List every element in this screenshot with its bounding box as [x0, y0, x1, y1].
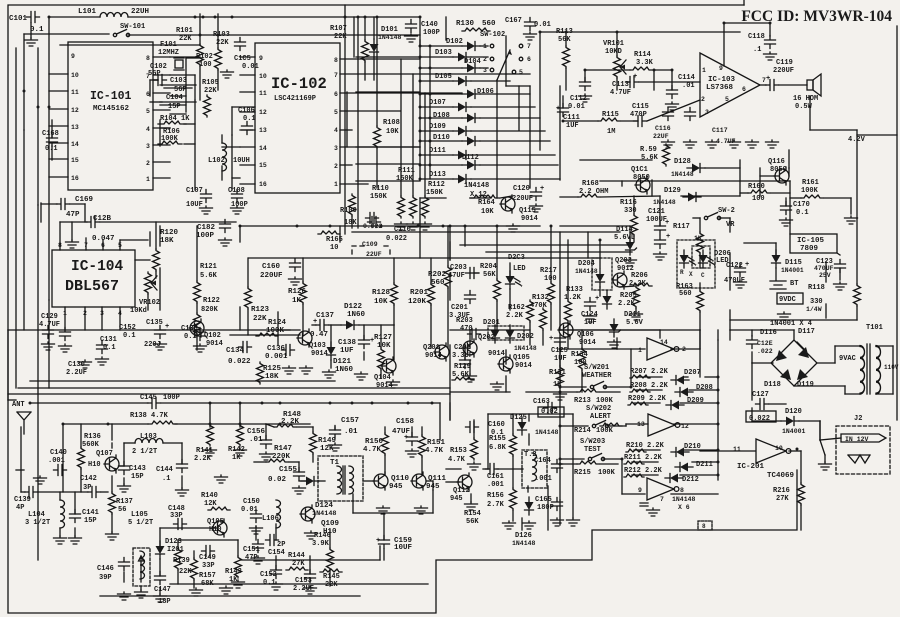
- wire: [153, 56, 170, 58]
- svg-text:R157: R157: [199, 572, 216, 580]
- wire: [760, 175, 775, 177]
- svg-text:IC-104: IC-104: [71, 259, 124, 275]
- wire: [845, 393, 860, 395]
- svg-text:560: 560: [679, 290, 692, 298]
- ground: [219, 238, 232, 246]
- svg-text:10K: 10K: [481, 208, 494, 216]
- svg-text:C110: C110: [394, 226, 411, 234]
- rect dashed bottom mark: [698, 521, 712, 530]
- wire: [427, 480, 433, 482]
- svg-text:1N4001 X 4: 1N4001 X 4: [770, 320, 812, 328]
- ground: [551, 518, 564, 526]
- svg-text:18K: 18K: [265, 373, 279, 381]
- svg-text:C164: C164: [534, 457, 551, 465]
- svg-text:14: 14: [71, 141, 79, 148]
- svg-text:D211: D211: [624, 311, 641, 319]
- svg-text:100: 100: [199, 61, 212, 69]
- svg-text:C169: C169: [75, 196, 94, 204]
- svg-text:D207: D207: [684, 369, 701, 377]
- svg-text:560: 560: [482, 20, 496, 28]
- svg-text:56K: 56K: [483, 271, 496, 279]
- node junction dots 4: [62, 423, 65, 426]
- wire: [785, 198, 787, 206]
- svg-text:R: R: [680, 269, 684, 276]
- svg-text:R213: R213: [574, 397, 591, 405]
- svg-text:C: C: [701, 272, 705, 279]
- svg-text:100K: 100K: [596, 427, 614, 435]
- svg-text:220J: 220J: [144, 341, 161, 349]
- svg-text:2P: 2P: [277, 541, 285, 549]
- svg-text:LSC421169P: LSC421169P: [274, 95, 316, 103]
- svg-text:C119: C119: [776, 59, 793, 67]
- svg-text:S/W203: S/W203: [580, 438, 605, 446]
- svg-text:D129: D129: [664, 187, 681, 195]
- svg-text:13: 13: [259, 127, 267, 134]
- svg-text:9VAC: 9VAC: [839, 355, 856, 363]
- wire: [346, 92, 348, 147]
- svg-text:7809: 7809: [800, 245, 819, 253]
- wire: [470, 197, 490, 199]
- svg-text:9014: 9014: [515, 362, 532, 370]
- svg-text:+: +: [666, 233, 670, 241]
- svg-text:5.6K: 5.6K: [200, 272, 218, 280]
- svg-text:R137: R137: [116, 498, 133, 506]
- wire: [581, 330, 583, 348]
- ground: [221, 70, 234, 78]
- svg-text:100: 100: [544, 275, 557, 283]
- svg-text:C167: C167: [505, 17, 522, 25]
- svg-text:C120: C120: [513, 185, 530, 193]
- svg-text:D209: D209: [687, 397, 704, 405]
- svg-text:12MHZ: 12MHZ: [158, 49, 179, 57]
- wire: [699, 283, 701, 290]
- svg-text:R168: R168: [582, 180, 599, 188]
- capacitor C124b: [655, 236, 666, 249]
- svg-text:SW-101: SW-101: [120, 23, 145, 31]
- wire: [449, 403, 451, 420]
- svg-text:.1: .1: [753, 46, 761, 54]
- svg-text:100K: 100K: [801, 187, 819, 195]
- svg-text:1K: 1K: [229, 576, 238, 584]
- svg-text:R118: R118: [808, 284, 825, 292]
- connector IN 12V plug: [841, 434, 886, 442]
- ground: [25, 38, 38, 46]
- svg-text:12K: 12K: [320, 445, 334, 453]
- ground: [554, 392, 567, 400]
- svg-text:.1: .1: [162, 475, 170, 483]
- wire: [266, 424, 274, 427]
- wire: [170, 583, 428, 585]
- svg-text:Q1C1: Q1C1: [631, 166, 648, 174]
- svg-text:4: 4: [146, 126, 150, 133]
- svg-text:D121: D121: [333, 358, 352, 366]
- ground: [270, 582, 283, 590]
- svg-text:11: 11: [71, 89, 79, 96]
- op-amp IC-105 box: [790, 234, 837, 253]
- svg-text:R128: R128: [372, 289, 391, 297]
- wire: [559, 86, 561, 180]
- wire: [24, 33, 109, 35]
- svg-text:D113: D113: [429, 171, 446, 179]
- svg-text:1N4001: 1N4001: [781, 267, 804, 274]
- svg-text:10K: 10K: [386, 128, 399, 136]
- svg-text:11: 11: [259, 90, 267, 97]
- wire: [825, 262, 827, 282]
- svg-text:1: 1: [702, 67, 706, 74]
- svg-text:R208 2.2K: R208 2.2K: [630, 382, 669, 390]
- svg-text:1N4148: 1N4148: [464, 182, 489, 190]
- svg-text:C201: C201: [451, 304, 468, 312]
- svg-text:C150: C150: [243, 498, 260, 506]
- svg-text:C160: C160: [262, 263, 281, 271]
- switch SW-102 wiper: [497, 50, 510, 80]
- svg-text:TEST: TEST: [584, 446, 601, 454]
- svg-text:ANT: ANT: [12, 401, 25, 409]
- svg-text:C163: C163: [533, 398, 550, 406]
- svg-text:R217: R217: [540, 267, 557, 275]
- wire: [420, 45, 462, 47]
- svg-text:D123: D123: [165, 538, 182, 546]
- wire: [527, 486, 529, 492]
- wire: [400, 59, 402, 196]
- svg-text:1M: 1M: [607, 128, 615, 136]
- wire: [299, 480, 306, 482]
- svg-text:16: 16: [71, 175, 79, 182]
- wire: [60, 221, 87, 223]
- svg-text:TC4069: TC4069: [767, 472, 795, 480]
- svg-text:R107: R107: [330, 25, 347, 33]
- svg-text:2.2K: 2.2K: [506, 312, 524, 320]
- svg-text:VR101: VR101: [603, 40, 624, 48]
- svg-text:C144: C144: [156, 466, 173, 474]
- wire: [430, 258, 432, 283]
- svg-text:J2: J2: [854, 415, 862, 423]
- ground: [252, 556, 265, 564]
- svg-text:10K: 10K: [377, 342, 391, 350]
- wire: [699, 330, 701, 377]
- ground: [231, 206, 244, 214]
- svg-text:C116: C116: [655, 125, 671, 132]
- svg-text:+: +: [549, 335, 553, 343]
- svg-text:C138: C138: [338, 339, 357, 347]
- svg-text:5: 5: [334, 109, 338, 116]
- svg-text:9014: 9014: [311, 350, 328, 358]
- ground: [395, 222, 408, 230]
- svg-text:DBL567: DBL567: [65, 278, 119, 295]
- svg-text:Q103: Q103: [309, 342, 326, 350]
- svg-text:Q203: Q203: [615, 257, 632, 265]
- svg-text:I201: I201: [167, 546, 184, 554]
- svg-text:2: 2: [701, 96, 705, 103]
- rect dashed LED box: [677, 240, 715, 288]
- wire: [505, 36, 507, 86]
- svg-text:+: +: [766, 75, 770, 83]
- svg-text:R204: R204: [480, 263, 497, 271]
- ground: [419, 222, 432, 230]
- svg-text:3: 3: [705, 109, 709, 116]
- ground: [819, 462, 832, 470]
- wire: [600, 180, 790, 182]
- svg-text:C142: C142: [80, 475, 97, 483]
- svg-text:R206: R206: [631, 272, 648, 280]
- ground: [468, 462, 481, 470]
- svg-text:100P: 100P: [163, 394, 180, 402]
- svg-text:9014: 9014: [521, 215, 538, 223]
- ground: [778, 312, 791, 320]
- switch SW-102 rotary: [490, 44, 494, 48]
- svg-text:IC-101: IC-101: [90, 90, 132, 103]
- wire: [30, 402, 148, 404]
- ground: [734, 280, 747, 288]
- wire: [309, 556, 311, 574]
- svg-text:22K: 22K: [325, 581, 338, 589]
- wire: [529, 322, 531, 345]
- svg-text:9014: 9014: [206, 340, 223, 348]
- op-amp IC-201: [756, 439, 786, 463]
- ground: [507, 224, 520, 232]
- svg-text:+: +: [595, 295, 599, 303]
- wire: [376, 17, 378, 126]
- wire: [632, 474, 658, 476]
- svg-text:0.1: 0.1: [263, 579, 276, 587]
- svg-text:R130: R130: [456, 20, 475, 28]
- wire: [518, 86, 520, 130]
- svg-text:22K: 22K: [179, 568, 192, 576]
- svg-text:15: 15: [71, 157, 79, 164]
- wire: [775, 243, 777, 255]
- svg-text:4P: 4P: [16, 504, 24, 512]
- wire: [729, 253, 731, 290]
- op-amp IC-101 box: [68, 42, 153, 190]
- svg-text:0.01: 0.01: [568, 103, 585, 111]
- svg-text:C147: C147: [154, 586, 171, 594]
- ground: [662, 140, 675, 148]
- svg-text:D119: D119: [797, 381, 814, 389]
- wire: [16, 469, 24, 471]
- svg-text:0.022: 0.022: [228, 358, 251, 366]
- svg-text:R.59: R.59: [640, 146, 657, 154]
- svg-text:560: 560: [431, 279, 445, 287]
- svg-text:R151: R151: [427, 439, 446, 447]
- wire: [460, 244, 628, 246]
- ground: [154, 594, 167, 602]
- ground: [706, 140, 719, 148]
- svg-text:150K: 150K: [370, 193, 388, 201]
- svg-text:R147: R147: [274, 445, 292, 453]
- inverter U1B: [648, 414, 680, 436]
- wire: [876, 345, 893, 347]
- svg-text:R215: R215: [574, 469, 591, 477]
- svg-text:R214: R214: [574, 427, 591, 435]
- wire: [469, 330, 471, 348]
- ground: [250, 526, 263, 534]
- wire: [342, 466, 344, 494]
- svg-text:Q106: Q106: [577, 331, 594, 339]
- wire: [699, 218, 701, 232]
- wire: [529, 86, 531, 188]
- node FCC label box: [743, 0, 745, 5]
- svg-text:1N4001: 1N4001: [782, 428, 806, 435]
- svg-text:L105: L105: [131, 511, 148, 519]
- wire: [48, 17, 50, 300]
- svg-text:Q105: Q105: [513, 354, 530, 362]
- svg-text:470UF: 470UF: [724, 277, 745, 285]
- svg-text:22UF: 22UF: [366, 251, 382, 258]
- ground: [176, 488, 189, 496]
- wire: [15, 48, 17, 388]
- wire: [636, 389, 662, 391]
- wire: [344, 5, 346, 234]
- ground: [503, 521, 516, 529]
- wire: [155, 271, 157, 278]
- svg-text:4.7K: 4.7K: [425, 447, 444, 455]
- wire: [364, 17, 366, 40]
- svg-text:150K: 150K: [396, 175, 414, 183]
- svg-text:S/W201: S/W201: [584, 364, 609, 372]
- rect dashed C109 mark: [352, 246, 390, 254]
- wire: [496, 226, 498, 279]
- svg-text:10K: 10K: [374, 298, 388, 306]
- wire: [674, 423, 718, 425]
- svg-text:+: +: [376, 537, 380, 545]
- wire: [420, 117, 462, 119]
- svg-text:180P: 180P: [537, 504, 554, 512]
- ground: [154, 342, 167, 350]
- svg-text:R155: R155: [489, 435, 506, 443]
- svg-text:D120: D120: [785, 408, 802, 416]
- ground: [220, 586, 233, 594]
- ground: [66, 240, 79, 248]
- svg-text:1N60: 1N60: [347, 311, 366, 319]
- svg-text:+: +: [665, 219, 669, 227]
- svg-text:1UF: 1UF: [584, 319, 597, 327]
- svg-text:12K: 12K: [204, 500, 217, 508]
- svg-text:22K: 22K: [179, 35, 192, 43]
- wire: [599, 240, 601, 268]
- svg-text:ALERT: ALERT: [590, 413, 611, 421]
- svg-text:14: 14: [660, 339, 668, 346]
- svg-text:22K: 22K: [204, 87, 217, 95]
- ground: [329, 443, 342, 451]
- svg-text:R209 2.2K: R209 2.2K: [628, 395, 667, 403]
- ground: [524, 32, 537, 40]
- svg-text:+: +: [540, 185, 544, 193]
- svg-text:R201: R201: [410, 289, 429, 297]
- wire: [730, 319, 857, 321]
- ground: [289, 277, 302, 285]
- wire: [353, 17, 355, 57]
- wire: [23, 34, 25, 130]
- svg-text:22K: 22K: [253, 315, 267, 323]
- svg-text:C156: C156: [247, 428, 266, 436]
- wire: [620, 286, 636, 287]
- svg-text:220UF: 220UF: [773, 67, 794, 75]
- svg-text:100K: 100K: [266, 327, 285, 335]
- svg-text:S/W202: S/W202: [586, 405, 611, 413]
- wire: [420, 178, 453, 180]
- svg-text:.001: .001: [535, 475, 552, 483]
- ground: [465, 502, 478, 510]
- wire: [464, 226, 466, 246]
- svg-text:D117: D117: [798, 328, 815, 336]
- wire: [7, 330, 9, 400]
- svg-text:10: 10: [775, 445, 783, 452]
- svg-text:16 HOM: 16 HOM: [793, 95, 818, 103]
- svg-text:56P: 56P: [174, 86, 187, 94]
- svg-text:945: 945: [389, 483, 403, 491]
- svg-text:R136: R136: [84, 433, 101, 441]
- svg-text:C170: C170: [793, 201, 810, 209]
- ground: [305, 531, 318, 539]
- wire: [18, 387, 450, 389]
- wire: [820, 440, 825, 455]
- svg-text:BT: BT: [790, 280, 798, 288]
- svg-text:1.2K: 1.2K: [564, 294, 582, 302]
- svg-text:R104 1K: R104 1K: [160, 115, 190, 123]
- svg-text:R144: R144: [288, 552, 305, 560]
- wire: [496, 80, 498, 198]
- wire: [419, 17, 421, 46]
- inverter U1C: [647, 478, 679, 500]
- svg-text:56K: 56K: [466, 518, 479, 526]
- ground: [666, 102, 679, 110]
- svg-text:56: 56: [118, 506, 126, 514]
- wire: [450, 391, 510, 393]
- wire: [450, 329, 530, 331]
- svg-text:H10: H10: [88, 461, 101, 469]
- wire: [565, 32, 567, 46]
- svg-text:15P: 15P: [131, 473, 144, 481]
- svg-text:7: 7: [660, 496, 664, 503]
- wire: [240, 225, 540, 227]
- svg-text:C114: C114: [678, 74, 695, 82]
- wire: [560, 391, 577, 393]
- svg-text:13: 13: [71, 124, 79, 131]
- wire: [135, 259, 150, 261]
- wire: [629, 226, 631, 242]
- ground: [377, 506, 390, 514]
- wire: [788, 168, 790, 176]
- wire: [587, 232, 589, 258]
- wire: [559, 500, 561, 525]
- svg-text:C157: C157: [341, 417, 359, 425]
- wire: [277, 312, 279, 345]
- wire: [356, 56, 420, 58]
- wire: [163, 442, 182, 444]
- wire: [820, 438, 841, 440]
- svg-text:1K: 1K: [232, 454, 241, 462]
- svg-text:Q111: Q111: [428, 475, 447, 483]
- svg-text:1: 1: [334, 181, 338, 188]
- svg-text:C109: C109: [362, 241, 378, 248]
- wire: [671, 348, 700, 350]
- wire: [439, 403, 441, 440]
- wire: [334, 427, 336, 430]
- ground: [630, 312, 643, 320]
- wire: [239, 226, 241, 242]
- node junction dots: [48, 16, 51, 19]
- ground: [766, 140, 779, 148]
- svg-text:100UF: 100UF: [646, 216, 667, 224]
- svg-text:R132: R132: [532, 294, 549, 302]
- svg-text:0.1: 0.1: [796, 209, 809, 217]
- svg-text:110V: 110V: [884, 364, 899, 371]
- svg-text:C103: C103: [170, 77, 187, 85]
- svg-text:10: 10: [71, 72, 79, 79]
- svg-text:C152: C152: [260, 571, 277, 579]
- capacitor C110 body: [368, 217, 381, 228]
- svg-text:18K: 18K: [160, 237, 174, 245]
